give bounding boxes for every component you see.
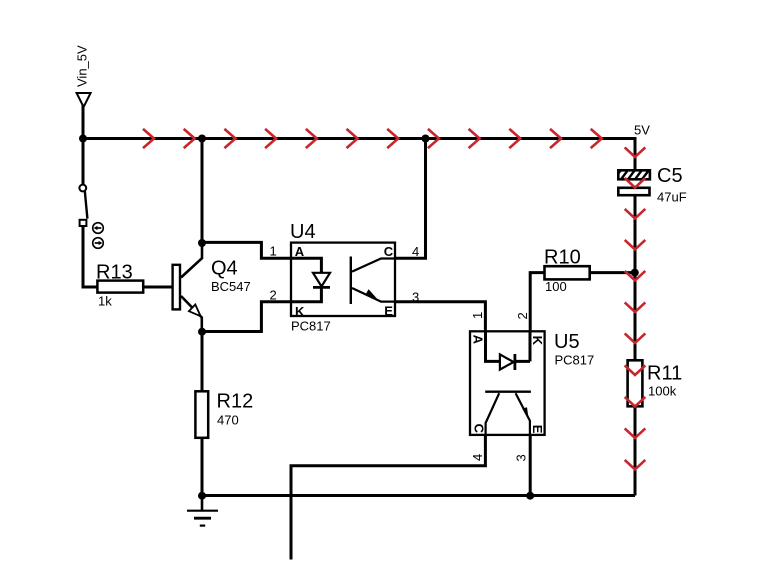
U4 LED triangle [313, 273, 330, 287]
svg-text:U5: U5 [554, 331, 580, 353]
junction node Q4 collector [198, 239, 206, 247]
resistor R13 body [97, 281, 143, 293]
svg-text:100k: 100k [648, 384, 677, 399]
U5 phototransistor base bar [485, 391, 531, 393]
capacitor C5 positive plate hatched [612, 166, 659, 182]
wire: C5 to R11 [634, 194, 637, 361]
resistor R12 body [195, 391, 208, 438]
switch SW top contact circle [79, 185, 86, 192]
svg-text:K: K [295, 304, 305, 319]
U5 phototransistor emitter arrowhead [522, 407, 528, 419]
svg-text:4: 4 [412, 244, 419, 259]
svg-text:BC547: BC547 [211, 279, 251, 294]
U5 LED anode lead [486, 332, 501, 361]
svg-text:1k: 1k [98, 294, 112, 309]
svg-text:5V: 5V [634, 123, 650, 138]
U4 LED anode lead [292, 258, 321, 272]
svg-text:3: 3 [513, 454, 528, 461]
svg-text:C: C [384, 244, 394, 259]
U4 phototransistor emitter arrowhead [366, 289, 377, 298]
capacitor C5 negative plate [618, 188, 649, 195]
svg-text:2: 2 [515, 312, 530, 319]
svg-text:E: E [530, 425, 545, 434]
wire: emitter node to U4 pin2 [202, 302, 291, 332]
svg-text:A: A [471, 335, 486, 345]
svg-text:PC817: PC817 [291, 319, 331, 334]
wire: U4 pin3 to U5 pin1 [395, 302, 485, 332]
svg-text:4: 4 [470, 454, 485, 461]
transistor Q4 emitter lead [181, 296, 202, 332]
junction node at port [79, 135, 87, 143]
resistor R11 body [628, 360, 643, 406]
svg-text:1: 1 [470, 312, 485, 319]
wire: U5 pin4 to bottom stub [291, 434, 485, 560]
svg-text:R11: R11 [647, 363, 682, 385]
svg-text:1: 1 [270, 244, 277, 259]
transistor Q4 emitter arrowhead [189, 305, 201, 317]
wire: rail down to switch [82, 139, 85, 186]
switch actuator up circle [93, 223, 104, 234]
current arrows on 5V rail [143, 129, 602, 148]
wire: U5 pin3 to ground line [529, 434, 532, 496]
svg-text:100: 100 [545, 279, 567, 294]
wire: R10 to R11 column [589, 271, 635, 274]
junction node ground left [198, 492, 206, 500]
resistor R10 body [545, 266, 590, 279]
U5 phototransistor emitter [516, 393, 530, 434]
junction node Q4 emitter [198, 328, 206, 336]
U5 LED cathode bar [514, 354, 517, 370]
svg-text:C: C [472, 424, 487, 434]
U5 LED triangle [500, 354, 514, 369]
junction node U4 pin4 rail [422, 135, 430, 143]
switch bottom terminal square [80, 220, 87, 226]
wire: R11 to ground line [634, 406, 637, 496]
wire: switch to R13 corner [83, 225, 99, 287]
ground symbol [201, 494, 204, 511]
svg-text:A: A [295, 244, 305, 259]
current arrows on right column [625, 147, 646, 469]
svg-text:PC817: PC817 [555, 353, 595, 368]
svg-text:47uF: 47uF [657, 190, 687, 205]
wire: rail corner down to C5 [634, 137, 637, 171]
wire: R10 to U5 pin2 [530, 273, 545, 332]
optocoupler U4 body [291, 243, 395, 316]
wire: U4 pin4 up to rail [395, 139, 426, 259]
wire: Q4 collector to rail [201, 137, 204, 244]
wire: collector node to U4 pin1 [202, 242, 291, 258]
wire: Q4 emitter down to R12 [201, 330, 204, 392]
svg-text:R12: R12 [217, 391, 254, 413]
wire: R13 to Q4 base [143, 286, 173, 289]
transistor Q4 base bar [173, 265, 180, 310]
svg-text:R13: R13 [96, 262, 133, 284]
U4 phototransistor base bar [350, 257, 352, 305]
svg-text:3: 3 [412, 290, 419, 305]
port Vin_5V terminal triangle [77, 93, 91, 107]
junction node Q4 collector rail [198, 135, 206, 143]
svg-text:Q4: Q4 [211, 258, 238, 280]
U5 phototransistor collector [486, 393, 500, 434]
wire: main 5V rail [83, 137, 637, 140]
switch actuator down circle [93, 238, 104, 249]
svg-text:R10: R10 [544, 247, 581, 269]
optocoupler U5 body [470, 331, 545, 435]
U4 phototransistor collector [352, 259, 394, 272]
svg-text:C5: C5 [657, 165, 683, 187]
transistor Q4 collector lead [181, 243, 202, 278]
wire: ground line [202, 494, 635, 497]
wire: port stem to rail [82, 105, 85, 139]
svg-text:470: 470 [217, 413, 239, 428]
U4 LED cathode lead [292, 288, 321, 302]
U4 LED cathode bar [313, 286, 330, 289]
svg-text:E: E [384, 303, 393, 318]
svg-text:U4: U4 [290, 221, 316, 243]
junction node R10 right [631, 269, 639, 277]
U4 phototransistor emitter [352, 288, 394, 302]
svg-text:2: 2 [270, 288, 277, 303]
switch arm [85, 191, 88, 219]
wire: R12 to ground node [201, 437, 204, 496]
svg-text:Vin_5V: Vin_5V [75, 45, 90, 87]
U5 LED cathode lead [515, 332, 530, 361]
junction node U5 pin3 ground [526, 492, 534, 500]
svg-text:K: K [530, 336, 545, 346]
